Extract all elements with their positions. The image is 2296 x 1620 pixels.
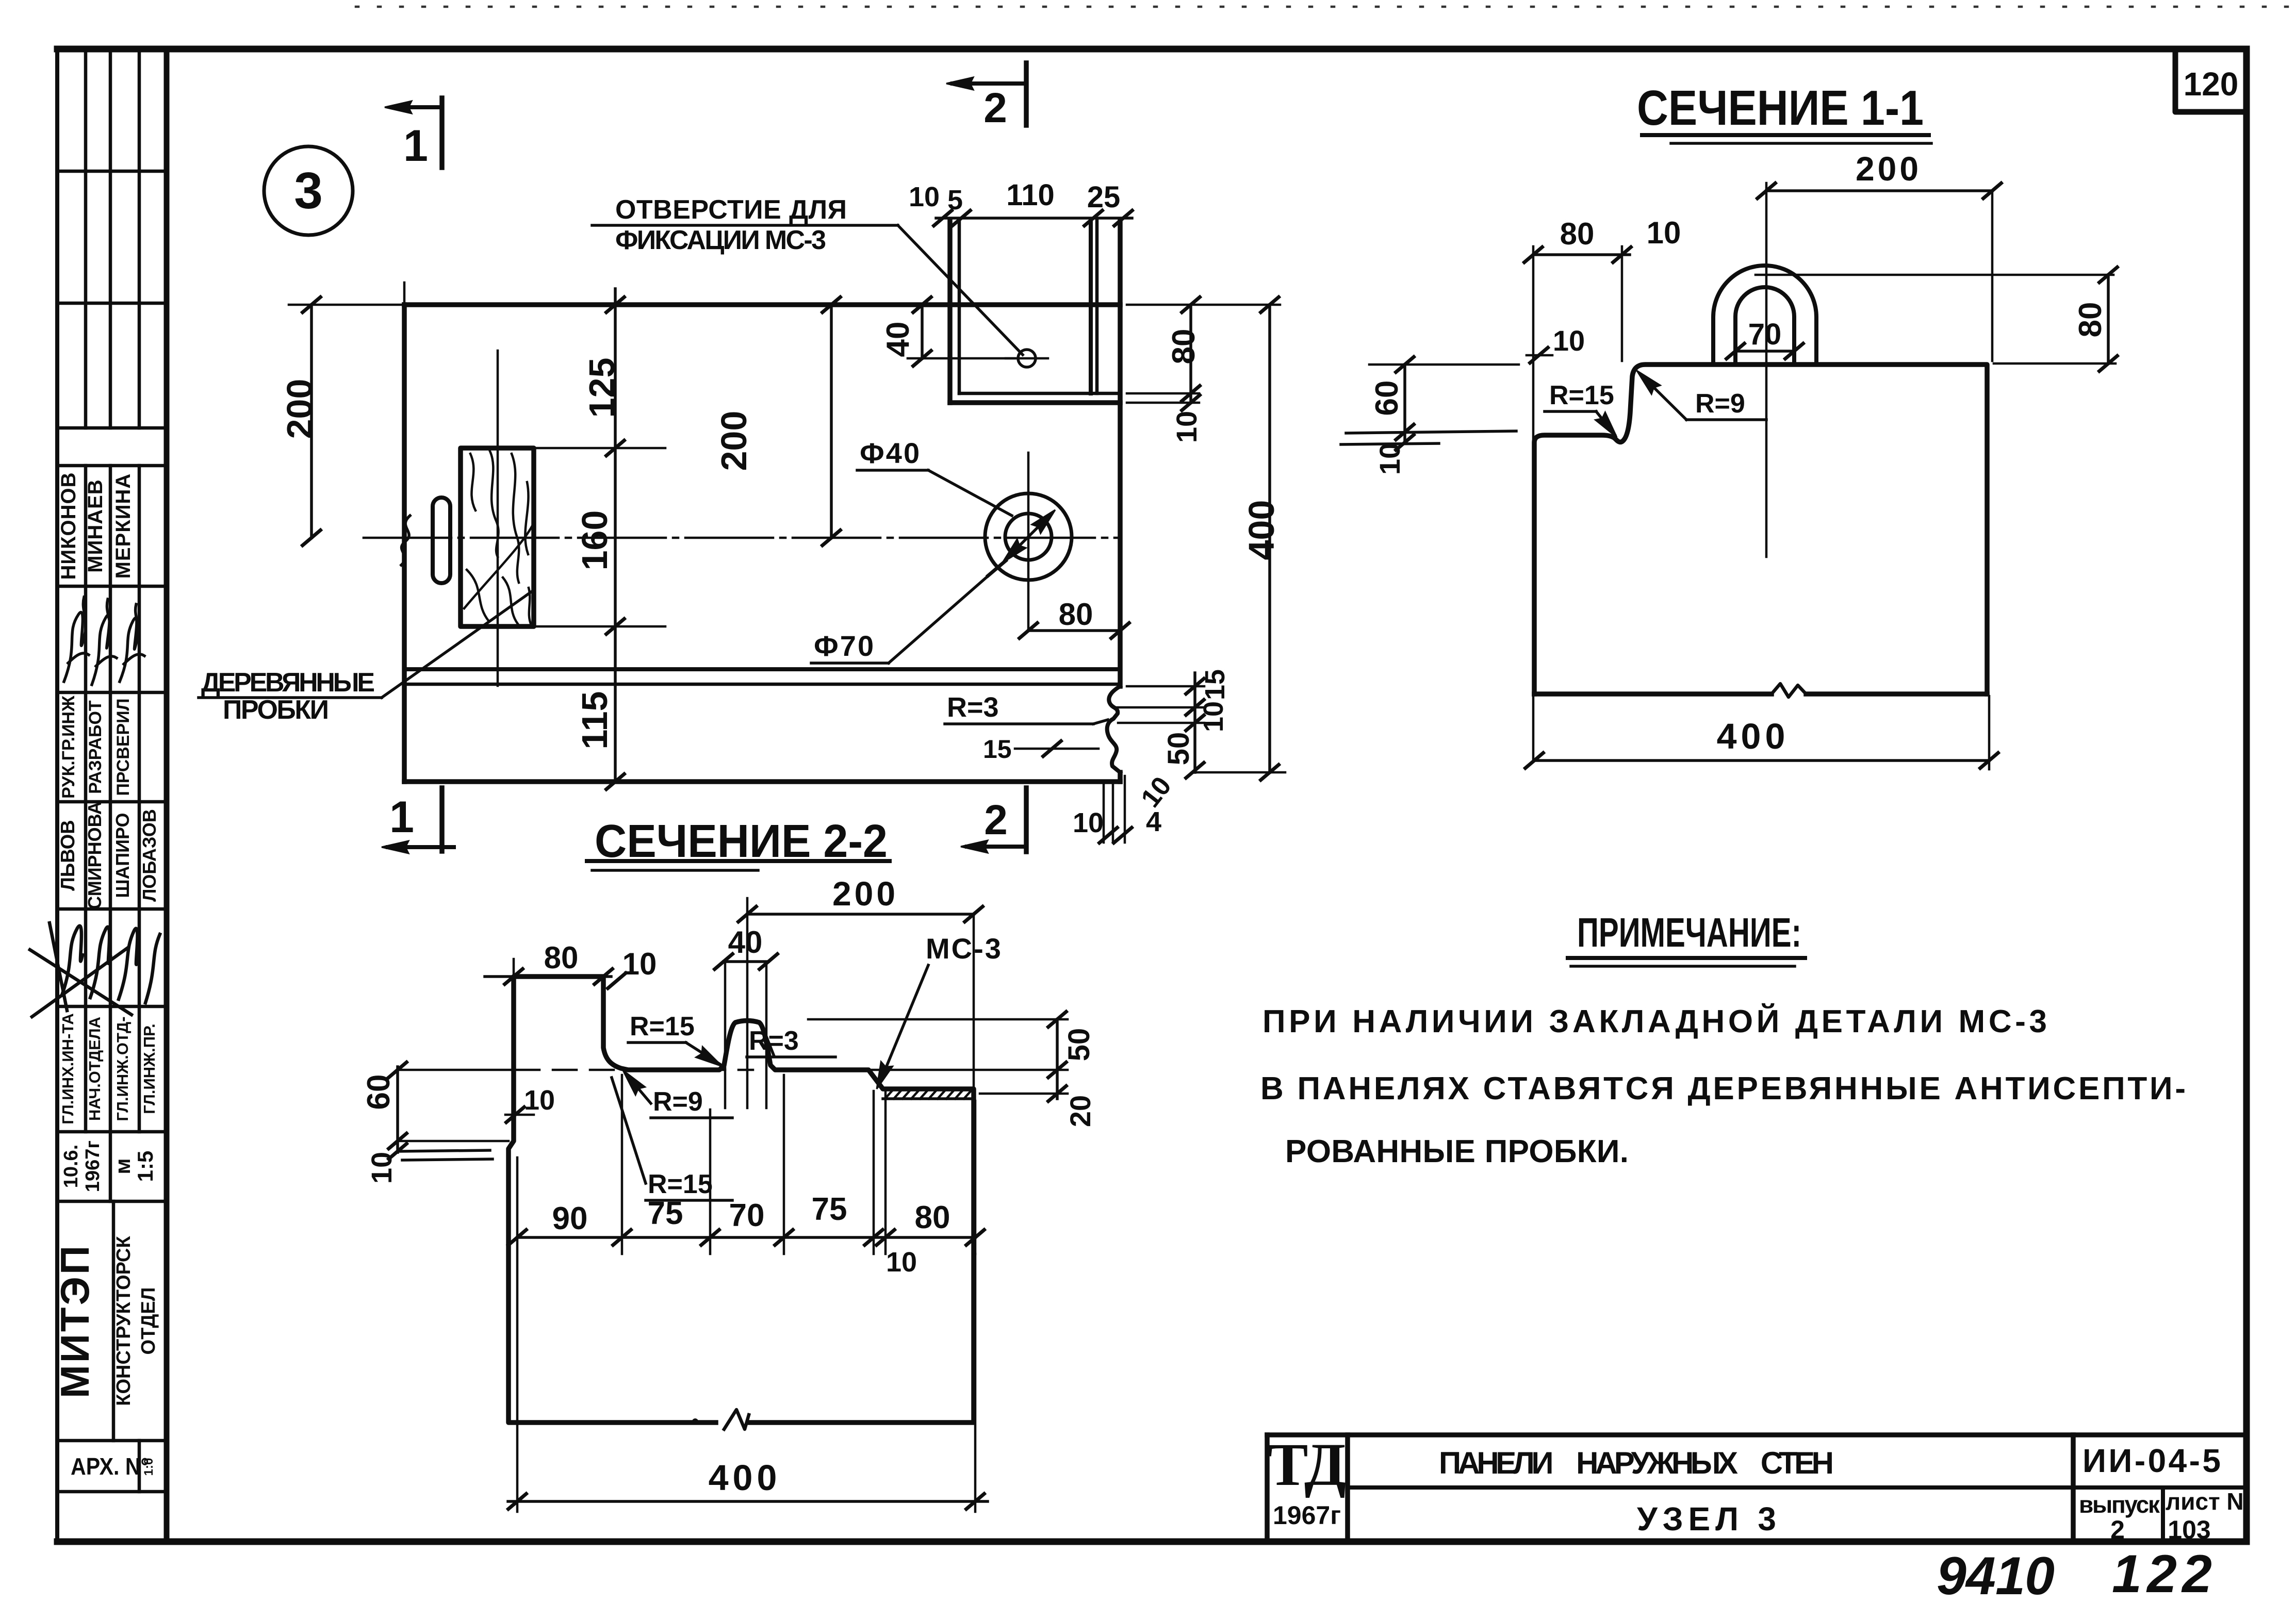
lifting loop xyxy=(1713,183,1816,557)
dim 80 10 top left xyxy=(1523,216,1681,761)
svg-text:200: 200 xyxy=(832,874,898,913)
svg-text:10: 10 xyxy=(909,181,940,212)
detail circle 3 xyxy=(264,146,353,235)
svg-text:АРХ. N°: АРХ. N° xyxy=(71,1453,149,1480)
dim 10 left step xyxy=(505,1085,555,1123)
svg-text:1967г: 1967г xyxy=(1273,1501,1341,1530)
svg-text:10: 10 xyxy=(1198,701,1229,732)
svg-text:выпуск: выпуск xyxy=(2079,1491,2160,1518)
plan break squiggle on left edge xyxy=(401,516,410,565)
rebate face reference xyxy=(868,1069,1068,1071)
svg-text:УЗЕЛ 3: УЗЕЛ 3 xyxy=(1637,1500,1781,1538)
svg-text:РУК.ГР.ИНЖ: РУК.ГР.ИНЖ xyxy=(59,696,78,799)
svg-text:400: 400 xyxy=(1241,500,1282,560)
svg-text:115: 115 xyxy=(575,691,615,750)
svg-text:ПРСВЕРИЛ: ПРСВЕРИЛ xyxy=(113,698,133,796)
svg-text:2: 2 xyxy=(983,85,1007,131)
svg-text:1967г: 1967г xyxy=(82,1140,104,1192)
section mark 1 top xyxy=(385,98,442,171)
svg-text:200: 200 xyxy=(280,379,320,439)
svg-text:80: 80 xyxy=(2073,302,2108,338)
svg-text:ЛЬВОВ: ЛЬВОВ xyxy=(57,820,79,890)
hole label xyxy=(592,195,1023,355)
svg-text:ШАПИРО: ШАПИРО xyxy=(112,813,133,898)
section 2-2 profile xyxy=(509,977,974,1429)
plan groove double line xyxy=(404,669,1120,684)
label R=15 upper xyxy=(628,1012,725,1071)
notch dim 15 xyxy=(983,735,1098,764)
svg-text:103: 103 xyxy=(2168,1515,2210,1544)
org cell МИТЭП xyxy=(52,1236,159,1406)
svg-text:50: 50 xyxy=(1162,732,1195,766)
plug centerline xyxy=(497,351,499,686)
svg-text:10: 10 xyxy=(886,1247,917,1278)
title strip grid xyxy=(57,49,167,1492)
svg-text:60: 60 xyxy=(1369,381,1405,416)
dim 80 block top xyxy=(485,940,657,989)
svg-text:70: 70 xyxy=(1748,318,1782,351)
svg-text:160: 160 xyxy=(575,510,615,571)
title strip rotated role titles xyxy=(59,696,133,799)
svg-text:125: 125 xyxy=(582,358,622,418)
title strip rotated names row 2 xyxy=(57,801,160,910)
section 1-1 profile xyxy=(1534,365,1987,697)
svg-text:КОНСТРУКТОРСК: КОНСТРУКТОРСК xyxy=(113,1236,135,1406)
signatures band 1 xyxy=(64,597,144,685)
svg-text:МИНАЕВ: МИНАЕВ xyxy=(84,479,107,572)
title block grid xyxy=(1267,1435,2246,1542)
dim 80 right xyxy=(1756,266,2119,372)
svg-text:R=3: R=3 xyxy=(749,1026,799,1056)
svg-text:3: 3 xyxy=(294,162,323,220)
svg-text:75: 75 xyxy=(648,1196,683,1231)
svg-text:10.6.: 10.6. xyxy=(60,1145,82,1188)
dim 40 xyxy=(713,925,779,1108)
svg-text:15: 15 xyxy=(983,735,1012,764)
svg-text:40: 40 xyxy=(880,322,916,357)
svg-text:80: 80 xyxy=(1059,597,1093,632)
dim 70 in loop xyxy=(1725,318,1805,360)
svg-text:МС-3: МС-3 xyxy=(926,932,1003,965)
svg-text:90: 90 xyxy=(552,1201,588,1236)
wood plug xyxy=(461,448,534,626)
right edge notch xyxy=(1107,686,1120,772)
svg-text:ОТДЕЛ: ОТДЕЛ xyxy=(138,1287,159,1355)
svg-text:НИКОНОВ: НИКОНОВ xyxy=(57,472,80,580)
svg-text:R=9: R=9 xyxy=(653,1087,703,1117)
svg-text:200: 200 xyxy=(714,411,754,471)
svg-text:80: 80 xyxy=(1560,217,1595,251)
date and scale cells xyxy=(60,1140,157,1192)
note title xyxy=(1568,910,1805,966)
svg-text:4: 4 xyxy=(1146,806,1161,837)
svg-text:ТД: ТД xyxy=(1268,1431,1346,1498)
svg-text:5: 5 xyxy=(947,185,963,216)
svg-text:Ф40: Ф40 xyxy=(860,437,921,469)
bottom small dims 10 and 4 xyxy=(1073,776,1161,844)
dim 10 small left xyxy=(1527,324,1585,364)
svg-text:20: 20 xyxy=(1064,1095,1096,1127)
dim row over recess box 10 5 110 25 xyxy=(909,178,1134,227)
svg-text:ГЛ.ИНЖ.ОТД-: ГЛ.ИНЖ.ОТД- xyxy=(113,1016,132,1121)
section mark 2 bottom xyxy=(961,788,1026,853)
svg-text:м: м xyxy=(110,1158,135,1174)
svg-text:R=15: R=15 xyxy=(648,1169,713,1199)
label R=3 xyxy=(747,1026,835,1057)
section 2-2 title xyxy=(587,816,890,870)
dim 200 top xyxy=(737,874,984,1108)
svg-text:СЕЧЕНИЕ 1-1: СЕЧЕНИЕ 1-1 xyxy=(1637,80,1924,136)
svg-text:60: 60 xyxy=(361,1075,397,1110)
svg-text:ОТВЕРСТИЕ ДЛЯ: ОТВЕРСТИЕ ДЛЯ xyxy=(615,195,849,225)
right margin dims 50 20 xyxy=(980,1011,1096,1127)
svg-text:120: 120 xyxy=(2184,65,2239,103)
svg-text:ИИ-04-5: ИИ-04-5 xyxy=(2082,1442,2223,1479)
svg-text:ФИКСАЦИИ МС-3: ФИКСАЦИИ МС-3 xyxy=(615,225,829,255)
fixation hole xyxy=(1006,350,1048,367)
dim 200 middle xyxy=(714,296,842,547)
arch number cell xyxy=(71,1453,156,1480)
dim 80 and 10 right of box xyxy=(1127,296,1203,443)
dim 400 bottom xyxy=(1524,696,1999,769)
label R=15 lower xyxy=(612,1078,732,1200)
svg-text:ГЛ.ИНЖ.ПР.: ГЛ.ИНЖ.ПР. xyxy=(140,1023,158,1114)
svg-text:ГЛ.ИНХ.ИН-ТА: ГЛ.ИНХ.ИН-ТА xyxy=(59,1013,77,1125)
slot capsule xyxy=(433,498,450,583)
svg-text:10: 10 xyxy=(622,947,657,981)
section 1-1 title xyxy=(1637,80,1931,143)
signatures band 2 with cross-out xyxy=(30,923,160,1017)
sheet page number box 120 xyxy=(2175,49,2246,112)
section mark 1 bottom xyxy=(382,788,454,853)
MC-3 recess box top right xyxy=(950,220,1120,403)
svg-text:75: 75 xyxy=(812,1192,847,1227)
svg-text:50: 50 xyxy=(1062,1028,1096,1062)
svg-text:200: 200 xyxy=(1856,150,1922,188)
svg-text:1: 1 xyxy=(403,121,428,171)
svg-text:10: 10 xyxy=(365,1152,398,1184)
svg-text:ЛОБАЗОВ: ЛОБАЗОВ xyxy=(139,809,160,902)
svg-text:СМИРНОВА: СМИРНОВА xyxy=(84,801,105,910)
svg-text:ПРИ НАЛИЧИИ ЗАКЛАДНОЙ ДЕТАЛ: ПРИ НАЛИЧИИ ЗАКЛАДНОЙ ДЕТАЛИ МС-3 xyxy=(1262,1003,2049,1039)
svg-text:РОВАННЫЕ ПРОБКИ.: РОВАННЫЕ ПРОБКИ. xyxy=(1285,1134,1631,1169)
label MC-3 xyxy=(871,932,1003,1091)
svg-text:Ф70: Ф70 xyxy=(814,630,875,662)
dim 80 at circle xyxy=(1018,597,1130,639)
label R=15 xyxy=(1545,381,1621,441)
svg-text:лист N: лист N xyxy=(2166,1488,2244,1515)
svg-text:15: 15 xyxy=(1200,669,1231,700)
svg-text:10: 10 xyxy=(524,1085,555,1116)
svg-text:МИТЭП: МИТЭП xyxy=(52,1244,97,1398)
svg-text:80: 80 xyxy=(915,1200,950,1235)
dim 400 bottom xyxy=(507,1158,988,1512)
label Ф40 xyxy=(857,437,1012,516)
svg-text:122: 122 xyxy=(2112,1544,2215,1604)
note text xyxy=(1260,1003,2188,1169)
svg-text:R=15: R=15 xyxy=(630,1012,695,1042)
svg-text:1: 1 xyxy=(389,792,414,842)
svg-text:10: 10 xyxy=(1647,216,1681,250)
section mark 2 top xyxy=(946,63,1026,131)
dim 400 right xyxy=(1127,296,1285,781)
title strip rotated department titles xyxy=(59,1013,158,1125)
svg-text:ПРИМЕЧАНИЕ:: ПРИМЕЧАНИЕ: xyxy=(1577,910,1801,955)
dim 200 left xyxy=(280,296,404,547)
notch label R=3 xyxy=(945,692,1108,724)
svg-text:2: 2 xyxy=(2110,1515,2125,1544)
ridge top reference xyxy=(808,1018,1068,1021)
svg-text:40: 40 xyxy=(728,925,763,960)
bottom dim chain 90 75 70 75 80 10 xyxy=(507,1075,986,1278)
svg-text:25: 25 xyxy=(1087,180,1121,214)
label Ф70 xyxy=(811,559,1007,663)
hole circles Ф70 Ф40 xyxy=(985,453,1072,630)
svg-text:R=15: R=15 xyxy=(1549,381,1614,410)
title strip rotated names row xyxy=(57,472,135,580)
dim 200 top xyxy=(1756,150,2003,361)
title block texts xyxy=(1268,1431,2244,1544)
svg-text:70: 70 xyxy=(729,1198,765,1233)
svg-text:2: 2 xyxy=(984,797,1008,844)
svg-text:80: 80 xyxy=(544,940,579,975)
scan noise dotted line along top xyxy=(356,6,2296,8)
svg-text:МЕРКИНА: МЕРКИНА xyxy=(112,473,135,579)
svg-text:R=9: R=9 xyxy=(1695,389,1745,419)
svg-text:ПРОБКИ: ПРОБКИ xyxy=(223,695,331,725)
svg-text:9410: 9410 xyxy=(1937,1546,2058,1606)
left margin dims 60 10 xyxy=(1341,356,1519,475)
svg-text:10: 10 xyxy=(1073,807,1104,838)
handwritten archive numbers xyxy=(1937,1544,2215,1606)
plan centerline xyxy=(364,537,1120,539)
svg-text:80: 80 xyxy=(1166,329,1202,365)
svg-text:НАЧ.ОТДЕЛА: НАЧ.ОТДЕЛА xyxy=(86,1017,104,1121)
dim chain 125 160 115 xyxy=(534,289,665,790)
svg-text:РАЗРАБОТ: РАЗРАБОТ xyxy=(86,700,105,794)
notch right dim chain 15 10 50 10 xyxy=(1117,669,1231,813)
plan panel outline xyxy=(404,220,1120,782)
svg-text:R=3: R=3 xyxy=(947,692,999,723)
svg-text:400: 400 xyxy=(1717,716,1790,756)
svg-text:1:5: 1:5 xyxy=(133,1151,157,1182)
wood plug label xyxy=(199,592,531,725)
svg-text:ДЕРЕВЯННЫЕ: ДЕРЕВЯННЫЕ xyxy=(201,668,377,698)
svg-text:10: 10 xyxy=(1170,411,1203,443)
wood plug hatch strip xyxy=(883,1089,974,1099)
svg-text:110: 110 xyxy=(1006,178,1055,212)
svg-text:1:0: 1:0 xyxy=(142,1458,156,1476)
label R=9 xyxy=(1633,367,1766,420)
svg-text:В ПАНЕЛЯХ СТАВЯТСЯ ДЕРЕВЯНН: В ПАНЕЛЯХ СТАВЯТСЯ ДЕРЕВЯННЫЕ АНТИСЕПТИ- xyxy=(1260,1071,2188,1106)
left margin dims 60 10 xyxy=(361,1061,753,1184)
label R=9 xyxy=(618,1066,732,1118)
svg-text:10: 10 xyxy=(1373,443,1406,475)
dim 40 at hole xyxy=(880,296,1015,367)
svg-text:400: 400 xyxy=(709,1458,781,1498)
svg-text:10: 10 xyxy=(1553,324,1585,357)
svg-text:ПАНЕЛИ НАРУЖНЫХ СТЕН: ПАНЕЛИ НАРУЖНЫХ СТЕН xyxy=(1439,1446,1837,1480)
